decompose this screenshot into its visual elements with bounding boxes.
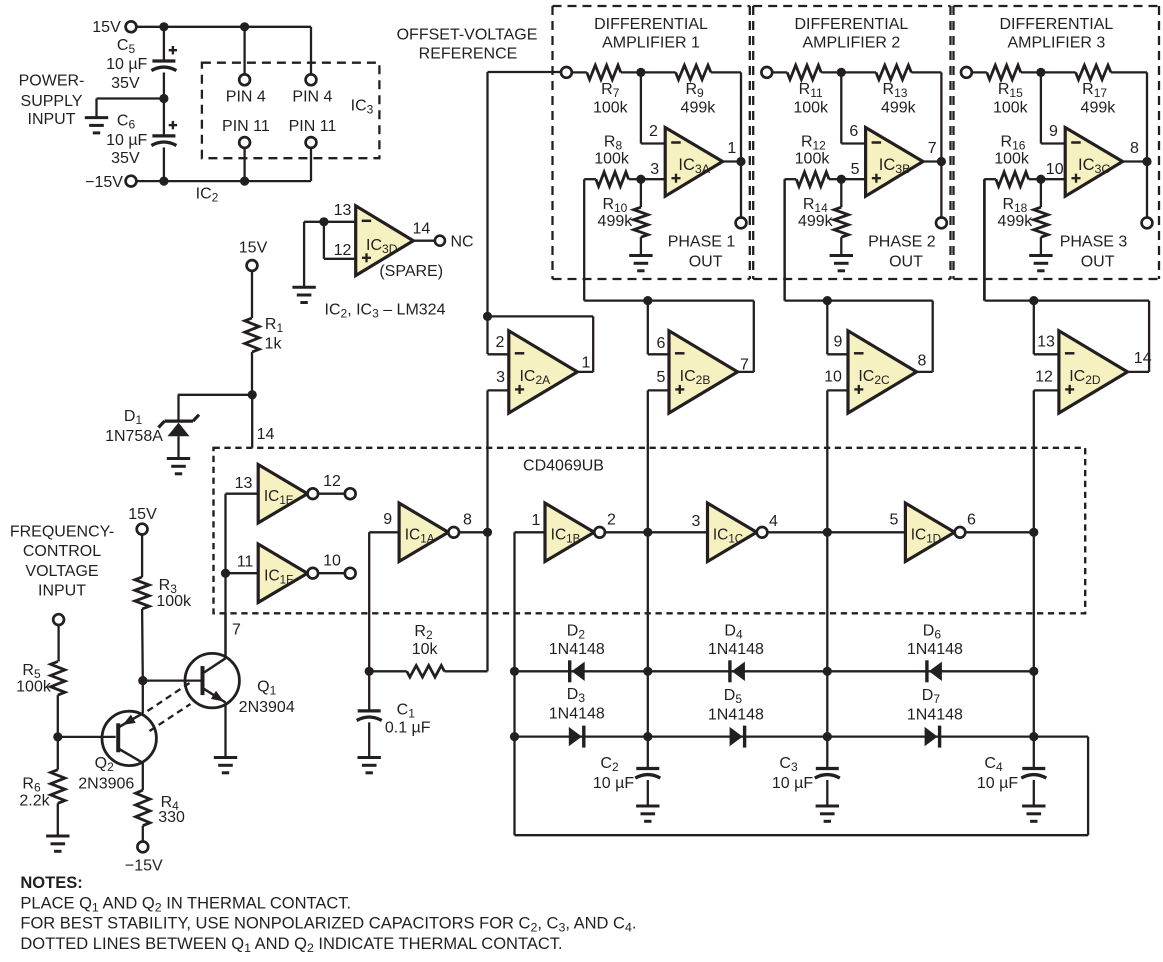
- svg-text:VOLTAGE: VOLTAGE: [25, 563, 98, 580]
- svg-text:DIFFERENTIAL: DIFFERENTIAL: [594, 16, 708, 33]
- svg-text:2: 2: [496, 334, 505, 351]
- svg-text:35V: 35V: [111, 75, 140, 92]
- svg-text:−15V: −15V: [125, 858, 163, 875]
- svg-text:12: 12: [323, 473, 341, 490]
- svg-text:INPUT: INPUT: [38, 582, 86, 599]
- svg-text:10 µF: 10 µF: [772, 775, 813, 792]
- svg-text:2: 2: [649, 123, 658, 140]
- svg-text:3: 3: [650, 161, 659, 178]
- svg-text:PIN 4: PIN 4: [226, 88, 266, 105]
- svg-text:100k: 100k: [594, 150, 630, 167]
- svg-text:5: 5: [890, 512, 899, 529]
- svg-text:499k: 499k: [681, 99, 717, 116]
- svg-text:FOR BEST STABILITY, USE NONPOL: FOR BEST STABILITY, USE NONPOLARIZED CAP…: [20, 915, 636, 935]
- svg-text:PIN 11: PIN 11: [222, 118, 270, 135]
- svg-text:13: 13: [1037, 334, 1055, 351]
- svg-text:CD4069UB: CD4069UB: [523, 457, 604, 474]
- svg-text:1k: 1k: [265, 335, 283, 352]
- svg-text:OUT: OUT: [1081, 253, 1115, 270]
- svg-text:PHASE 2: PHASE 2: [868, 233, 936, 250]
- svg-text:9: 9: [834, 334, 843, 351]
- svg-text:14: 14: [413, 220, 431, 237]
- svg-text:2: 2: [607, 512, 616, 529]
- svg-text:100k: 100k: [795, 150, 831, 167]
- svg-text:12: 12: [334, 242, 352, 259]
- svg-text:499k: 499k: [598, 213, 634, 230]
- svg-text:OUT: OUT: [889, 253, 923, 270]
- svg-text:INPUT: INPUT: [28, 111, 76, 128]
- svg-text:2.2k: 2.2k: [19, 792, 50, 809]
- svg-text:15V: 15V: [239, 239, 268, 256]
- svg-text:10k: 10k: [412, 641, 439, 658]
- svg-text:3: 3: [496, 369, 505, 386]
- svg-text:499k: 499k: [1081, 99, 1117, 116]
- svg-text:1N4148: 1N4148: [907, 641, 963, 658]
- svg-text:100k: 100k: [16, 679, 52, 696]
- svg-text:1: 1: [727, 140, 736, 157]
- svg-text:14: 14: [257, 426, 275, 443]
- svg-text:6: 6: [657, 335, 666, 352]
- svg-text:DIFFERENTIAL: DIFFERENTIAL: [1000, 16, 1114, 33]
- svg-text:8: 8: [463, 511, 472, 528]
- svg-text:7: 7: [740, 356, 749, 373]
- svg-text:100k: 100k: [793, 99, 829, 116]
- svg-text:9: 9: [1049, 123, 1058, 140]
- svg-text:6: 6: [849, 123, 858, 140]
- svg-text:100k: 100k: [156, 593, 192, 610]
- svg-text:15V: 15V: [92, 19, 121, 36]
- svg-text:10: 10: [1046, 161, 1064, 178]
- svg-text:FREQUENCY-: FREQUENCY-: [10, 524, 114, 541]
- svg-text:OUT: OUT: [689, 253, 723, 270]
- svg-text:35V: 35V: [111, 150, 140, 167]
- svg-text:330: 330: [158, 809, 185, 826]
- svg-text:DOTTED LINES BETWEEN Q1 AND Q2: DOTTED LINES BETWEEN Q1 AND Q2 INDICATE …: [20, 935, 562, 955]
- svg-text:499k: 499k: [998, 213, 1034, 230]
- svg-text:8: 8: [1130, 140, 1139, 157]
- svg-text:100k: 100k: [993, 99, 1029, 116]
- svg-text:100k: 100k: [593, 99, 629, 116]
- svg-text:499k: 499k: [881, 99, 917, 116]
- svg-text:1N4148: 1N4148: [549, 706, 605, 723]
- svg-text:PHASE 3: PHASE 3: [1060, 233, 1128, 250]
- svg-text:NC: NC: [450, 234, 473, 251]
- svg-text:100k: 100k: [994, 150, 1030, 167]
- svg-text:4: 4: [769, 513, 778, 530]
- svg-text:OFFSET-VOLTAGE: OFFSET-VOLTAGE: [397, 27, 538, 44]
- svg-text:1N4148: 1N4148: [708, 706, 764, 723]
- svg-text:12: 12: [1035, 368, 1053, 385]
- svg-text:13: 13: [334, 202, 352, 219]
- svg-text:SUPPLY: SUPPLY: [21, 93, 83, 110]
- svg-text:10: 10: [824, 368, 842, 385]
- svg-text:10 µF: 10 µF: [593, 775, 634, 792]
- svg-text:1: 1: [532, 512, 541, 529]
- svg-text:PLACE Q1 AND Q2 IN THERMAL CON: PLACE Q1 AND Q2 IN THERMAL CONTACT.: [20, 894, 351, 914]
- svg-text:CONTROL: CONTROL: [23, 543, 101, 560]
- svg-text:1N758A: 1N758A: [105, 428, 163, 445]
- svg-text:PIN 4: PIN 4: [292, 88, 332, 105]
- svg-text:7: 7: [232, 621, 241, 638]
- svg-text:1N4148: 1N4148: [708, 641, 764, 658]
- svg-text:1N4148: 1N4148: [549, 641, 605, 658]
- svg-text:1: 1: [581, 354, 590, 371]
- svg-text:1N4148: 1N4148: [907, 706, 963, 723]
- svg-text:AMPLIFIER 2: AMPLIFIER 2: [802, 34, 900, 51]
- svg-text:PHASE 1: PHASE 1: [668, 233, 736, 250]
- svg-text:15V: 15V: [128, 506, 157, 523]
- svg-text:10 µF: 10 µF: [106, 56, 147, 73]
- svg-text:10: 10: [323, 553, 341, 570]
- svg-text:−15V: −15V: [85, 174, 123, 191]
- svg-text:5: 5: [657, 369, 666, 386]
- svg-text:DIFFERENTIAL: DIFFERENTIAL: [795, 16, 909, 33]
- svg-text:6: 6: [967, 512, 976, 529]
- svg-text:14: 14: [1134, 350, 1152, 367]
- svg-text:8: 8: [918, 352, 927, 369]
- svg-text:10 µF: 10 µF: [106, 132, 147, 149]
- svg-text:5: 5: [851, 161, 860, 178]
- svg-text:13: 13: [235, 475, 253, 492]
- svg-text:AMPLIFIER 3: AMPLIFIER 3: [1007, 34, 1105, 51]
- svg-text:AMPLIFIER 1: AMPLIFIER 1: [602, 34, 700, 51]
- svg-text:0.1 µF: 0.1 µF: [385, 720, 431, 737]
- svg-text:2N3904: 2N3904: [239, 699, 295, 716]
- svg-text:7: 7: [928, 140, 937, 157]
- svg-text:9: 9: [383, 511, 392, 528]
- svg-text:NOTES:: NOTES:: [20, 874, 82, 892]
- svg-text:11: 11: [237, 554, 254, 571]
- svg-text:(SPARE): (SPARE): [379, 263, 443, 280]
- svg-text:PIN 11: PIN 11: [289, 118, 337, 135]
- svg-text:10 µF: 10 µF: [977, 775, 1018, 792]
- svg-text:499k: 499k: [798, 213, 834, 230]
- svg-text:2N3906: 2N3906: [78, 776, 134, 793]
- svg-text:REFERENCE: REFERENCE: [419, 45, 518, 62]
- svg-text:POWER-: POWER-: [19, 73, 85, 90]
- svg-text:3: 3: [692, 513, 701, 530]
